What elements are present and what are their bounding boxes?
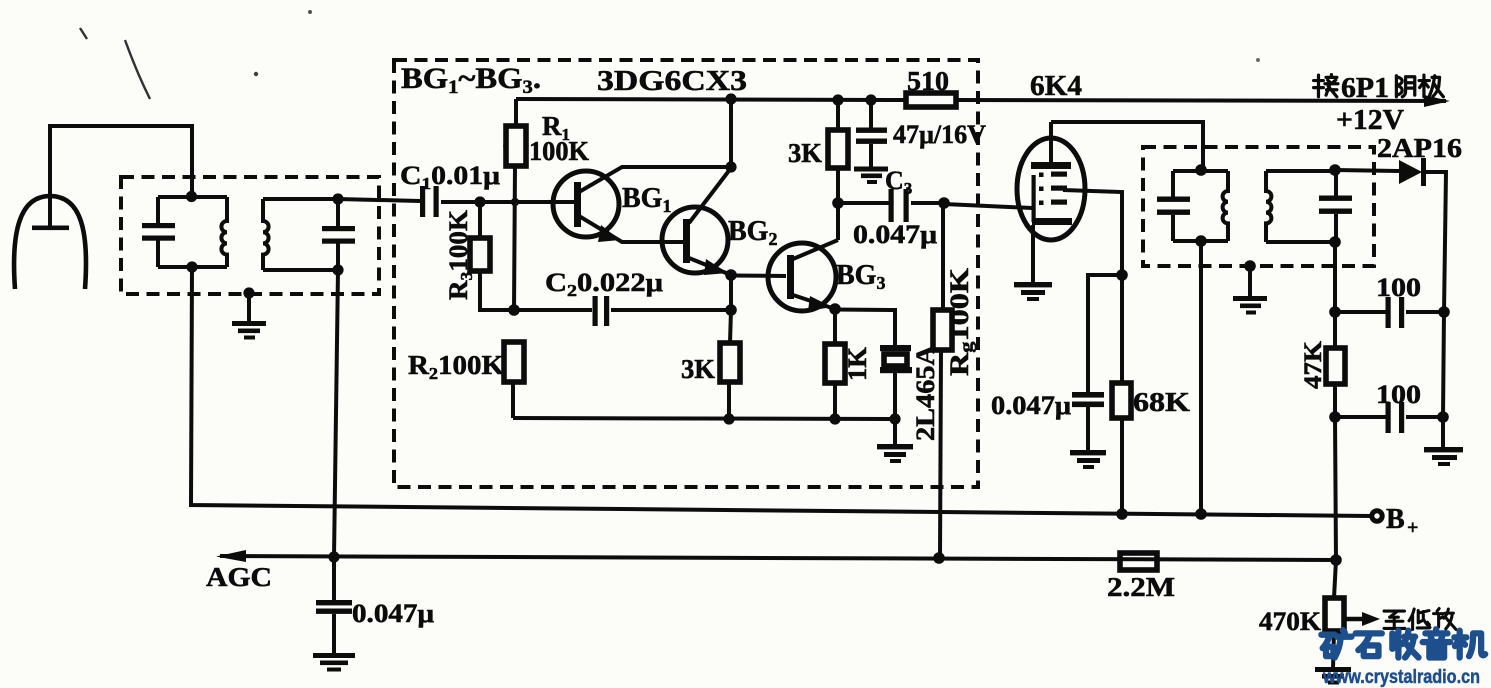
capacitor 100 second: [1335, 402, 1443, 433]
label 0.047u AGC: [352, 599, 434, 628]
wire tank1 bottom to B+ rail: [191, 267, 1371, 516]
capacitor 0.047u AGC plates: [316, 600, 352, 614]
label Rg100K vertical: [945, 267, 976, 376]
transistor BG2: [662, 168, 731, 275]
label BG3: [836, 260, 885, 293]
crystal 2L465A: [880, 345, 912, 419]
resistor 3K emitter: [720, 310, 740, 419]
svg-text:510: 510: [907, 66, 949, 96]
inductor L4 tank4 left edge: [1266, 171, 1271, 242]
svg-text:0.047μ: 0.047μ: [853, 220, 937, 249]
node screen junction: [1116, 269, 1128, 281]
node AGC right: [1330, 554, 1342, 566]
wire AGC cap to ground: [332, 614, 336, 654]
wire tank1 bottom edge: [158, 265, 227, 269]
svg-text:C3: C3: [885, 166, 912, 198]
tube grid side rail: [1032, 175, 1036, 222]
wire collector bus upper: [729, 99, 733, 167]
node AGC tank2 junction: [328, 551, 339, 562]
resistor 3K collector: [828, 100, 848, 168]
dashed box input transformer: [121, 177, 379, 294]
dashed box BG1~BG3 stage: [394, 60, 978, 487]
svg-text:2AP16: 2AP16: [1377, 133, 1462, 163]
tube plate: [1031, 122, 1071, 169]
diode 2AP16: [1399, 158, 1426, 186]
watermark url: [1322, 666, 1480, 688]
node tank2 top right: [332, 193, 343, 204]
capacitor 0.047u screen plates: [1072, 392, 1104, 451]
label 0.047u screen: [991, 391, 1071, 420]
svg-text:C10.01μ: C10.01μ: [400, 161, 500, 193]
svg-text:R3100K: R3100K: [444, 209, 476, 300]
transistor BG1: [553, 167, 731, 242]
node tank2 bottom right: [332, 264, 343, 275]
label 100 first: [1376, 273, 1421, 302]
label 0.047u C3: [853, 220, 937, 249]
node tank3 top: [1195, 164, 1207, 176]
wire C3 to tube grid: [944, 204, 1032, 208]
svg-text:2L465A: 2L465A: [911, 345, 940, 441]
label 6K4: [1030, 70, 1082, 102]
svg-text:www.crystalradio.cn: www.crystalradio.cn: [1322, 666, 1480, 688]
wire ground stub box3: [1248, 266, 1252, 297]
svg-text:B: B: [1386, 504, 1405, 535]
svg-text:+12V: +12V: [1336, 105, 1404, 136]
label R3 100K vertical: [444, 209, 476, 300]
ground under box1: [232, 321, 266, 340]
label B+: [1386, 504, 1418, 539]
label BG1: [622, 183, 671, 216]
resistor 47K: [1326, 312, 1345, 417]
node C3 Rg junction: [938, 197, 950, 209]
svg-text:1K: 1K: [843, 346, 872, 381]
node Rg AGC junction: [933, 552, 945, 564]
wire 47K node to AGC: [1335, 417, 1336, 560]
svg-text:AGC: AGC: [206, 562, 272, 592]
scan speck: [254, 10, 1260, 148]
svg-text:3K: 3K: [788, 138, 822, 168]
arrowhead top rail: [1424, 95, 1450, 107]
label 1K vertical: [843, 346, 872, 381]
label R1: [542, 111, 570, 144]
wire right riser to ground: [1443, 312, 1444, 448]
wire tank2 to C1: [338, 199, 420, 201]
node tank3 B+: [1195, 508, 1207, 520]
wire tank2 bottom edge: [263, 268, 338, 272]
wire to BG3 base: [731, 274, 786, 279]
wire tank4 right edge: [1334, 171, 1338, 242]
node 100 cap1 left: [1329, 306, 1341, 318]
transistor BG3: [768, 240, 838, 311]
wire C1 to BG1 base: [441, 200, 578, 204]
node 100 cap1 right: [1438, 306, 1450, 318]
node 100 cap2 left: [1329, 411, 1341, 423]
node tank1 top: [186, 191, 197, 202]
svg-text:6K4: 6K4: [1030, 70, 1082, 102]
capacitor 47u/16V: [856, 100, 887, 167]
wire tank1 top edge: [158, 195, 227, 199]
node 100 cap2 right: [1437, 411, 1449, 423]
svg-text:6P1: 6P1: [1341, 73, 1389, 104]
label 2L465A vertical: [911, 345, 940, 441]
svg-text:BG1: BG1: [622, 183, 671, 216]
svg-text:Rg100K: Rg100K: [945, 267, 976, 376]
inductor L2 tank2 left edge: [263, 199, 269, 270]
wire tank3 bottom to B+: [1199, 241, 1203, 514]
resistor Rg 100K: [933, 203, 952, 558]
resistor 68K: [1112, 275, 1131, 514]
svg-text:0.047μ: 0.047μ: [352, 599, 434, 628]
wire BG2 emitter to C2 node: [729, 275, 733, 310]
node R1/base junction: [511, 198, 519, 206]
label BG1~BG3: [401, 62, 541, 98]
svg-text:47K: 47K: [1300, 340, 1327, 389]
svg-text:100: 100: [1376, 273, 1421, 302]
node BG3 emitter: [829, 303, 841, 315]
label 100K R1: [529, 136, 589, 166]
node B+ terminal: [1372, 511, 1382, 521]
wire plate to tank3: [1051, 122, 1203, 170]
svg-text:68K: 68K: [1133, 387, 1190, 417]
label zhi di fang (to low-freq amp): [1384, 609, 1456, 630]
wire tank4 to diode: [1335, 170, 1399, 171]
node 3K top rail: [832, 94, 843, 105]
node BG2 emitter BG3 base: [725, 269, 737, 281]
capacitor tank2 C right plates: [322, 226, 355, 244]
scan scratch artifact: [80, 28, 150, 99]
svg-text:+: +: [1407, 517, 1418, 539]
node rail 3K: [723, 413, 734, 424]
wire ground stub box1: [247, 293, 251, 322]
label +12V: [1336, 105, 1404, 136]
label jie 6P1 yinji (connect 6P1 cathode): [1314, 73, 1444, 104]
wire BG3 collector riser: [836, 168, 840, 240]
tube grid dashes: [1039, 172, 1067, 206]
node C2 right junction: [725, 304, 737, 316]
node tank4 bottom: [1329, 236, 1341, 248]
label C3: [885, 166, 912, 198]
wire tank3 top edge: [1173, 169, 1228, 173]
inductor L3 tank3 right edge: [1223, 171, 1228, 241]
ground under crystal: [877, 444, 913, 463]
node ground stub box3: [1244, 260, 1256, 272]
label 2AP16: [1377, 133, 1462, 163]
svg-text:BG1~BG3.: BG1~BG3.: [401, 62, 541, 98]
label 47K vertical: [1300, 340, 1327, 389]
node rail 1K: [829, 413, 840, 424]
svg-text:0.047μ: 0.047μ: [991, 391, 1071, 420]
ground under 47u: [854, 167, 888, 185]
wire screen bypass branch: [1088, 275, 1122, 393]
wire tank2 right edge: [336, 199, 340, 270]
label 47u/16V: [893, 120, 986, 149]
label 510: [907, 66, 949, 96]
wire antenna lead to input tank: [50, 126, 192, 228]
node 68K B+: [1116, 508, 1128, 520]
capacitor C2 plates: [514, 296, 731, 326]
ground under box3: [1233, 296, 1267, 315]
node tank1 bottom: [186, 261, 197, 272]
node tank3 bottom: [1195, 235, 1207, 247]
node 47u top: [865, 94, 876, 105]
svg-text:100K: 100K: [529, 136, 589, 166]
node C1/R3 junction: [474, 196, 485, 207]
label 3K emitter: [681, 354, 715, 384]
capacitor C1 plates: [420, 186, 439, 217]
wire tank4 bottom riser: [1333, 242, 1337, 312]
tube U1 6K4 envelope: [1017, 138, 1085, 240]
wire screen grid to node: [1063, 190, 1122, 275]
wire tank2 bottom down to AGC: [334, 270, 338, 601]
capacitor tank3 plates: [1157, 197, 1190, 215]
resistor 510: [906, 93, 956, 107]
capacitor input tank C left plates: [142, 223, 175, 241]
node tank4 top: [1329, 164, 1341, 176]
node top rail left: [725, 93, 736, 104]
watermark logo kuangshi shouyinji: [1321, 629, 1485, 657]
svg-text:3K: 3K: [681, 354, 715, 384]
ground right riser: [1424, 447, 1463, 466]
wire tank3 left edge: [1171, 171, 1175, 241]
wire tank2 top edge: [263, 197, 338, 201]
capacitor C3 plates: [838, 189, 944, 222]
ground under 470K: [1315, 667, 1351, 685]
wire tank1 left edge: [156, 197, 160, 267]
node C3 branch: [832, 197, 844, 209]
label 3K collector: [788, 138, 822, 168]
label C2 0.022u: [545, 268, 663, 300]
svg-text:C20.022μ: C20.022μ: [545, 268, 663, 300]
resistor R3 100K: [470, 202, 514, 310]
dashed box output transformer: [1143, 147, 1374, 266]
wire tank4 top edge: [1266, 169, 1336, 173]
resistor 470K: [1325, 560, 1344, 668]
svg-text:BG3: BG3: [836, 260, 885, 293]
node ground stub on box1 edge: [243, 287, 254, 298]
label C1 0.01u: [400, 161, 500, 193]
wire tank3 bottom edge: [1173, 239, 1228, 243]
svg-text:BG2: BG2: [728, 216, 777, 249]
arrow to low-freq amp: [1344, 612, 1380, 626]
inductor L1 tank1 right edge: [221, 197, 227, 267]
wire BG3 emitter to crystal: [835, 310, 895, 347]
wire diode to right riser: [1426, 172, 1446, 312]
label 470K: [1259, 607, 1322, 636]
resistor R1 100K: [506, 99, 526, 310]
label R2 100K: [408, 350, 504, 383]
label 3DG6CX3: [597, 66, 747, 97]
svg-text:100: 100: [1376, 380, 1421, 409]
wire top supply rail: [516, 99, 1446, 101]
ground under AGC cap: [313, 653, 355, 672]
node rail crystal: [889, 413, 900, 424]
label 68K: [1133, 387, 1190, 417]
AGC arrowhead: [216, 550, 246, 562]
resistor 2.2M: [1120, 553, 1157, 570]
resistor R2 100K: [504, 342, 524, 418]
label AGC: [206, 562, 272, 592]
resistor 1K: [825, 309, 845, 419]
ground under screen cap: [1070, 450, 1106, 469]
svg-text:2.2M: 2.2M: [1107, 572, 1175, 602]
label 2.2M: [1107, 572, 1175, 602]
svg-text:3DG6CX3: 3DG6CX3: [597, 66, 747, 97]
wire tank4 bottom edge: [1266, 240, 1336, 244]
svg-text:R2100K: R2100K: [408, 350, 504, 383]
node R1 R2 C2 junction: [508, 304, 520, 316]
wire crystal ground stub: [893, 419, 897, 445]
svg-text:470K: 470K: [1259, 607, 1322, 636]
capacitor tank4 plates: [1319, 196, 1352, 214]
wire ground rail of BG stage: [513, 418, 895, 419]
node BG1 BG2 collector: [725, 161, 736, 172]
antenna: [14, 196, 86, 289]
tube cathode: [1032, 218, 1072, 283]
ground under cathode: [1014, 282, 1052, 301]
capacitor 100 first: [1335, 297, 1444, 328]
label 100 second: [1376, 380, 1421, 409]
wire AGC line: [220, 556, 1336, 560]
svg-text:47μ/16V: 47μ/16V: [893, 120, 986, 149]
label BG2: [728, 216, 777, 249]
